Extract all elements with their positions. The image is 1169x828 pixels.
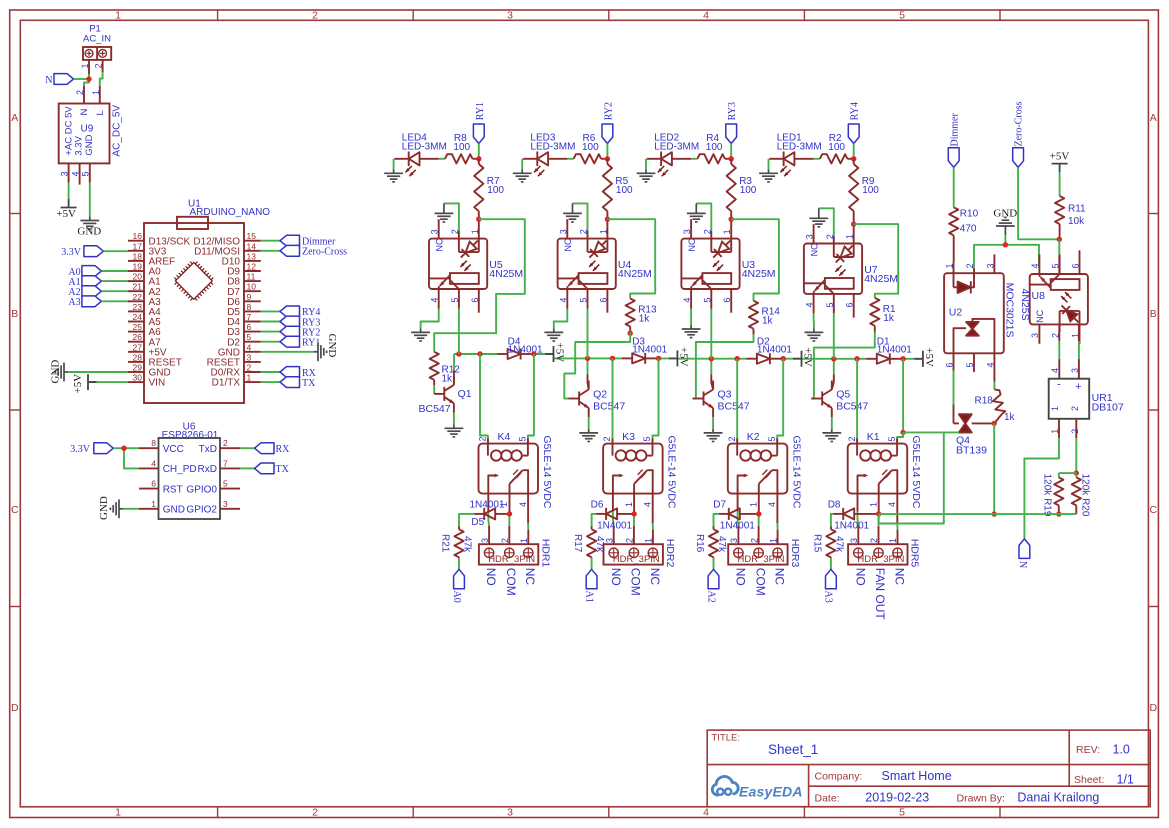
wire Q1 emitter to ground: [453, 403, 455, 412]
resistor R4 100: [697, 154, 725, 163]
svg-text:5: 5: [518, 436, 528, 441]
svg-text:A: A: [11, 112, 18, 124]
wire Q5 base lead: [811, 398, 822, 400]
svg-text:1: 1: [151, 499, 156, 509]
svg-text:Zero-Cross: Zero-Cross: [302, 247, 347, 258]
svg-text:RY1: RY1: [475, 102, 486, 120]
U1 pin 20 (A1) stub: [128, 280, 144, 282]
svg-text:8: 8: [247, 302, 252, 312]
relay K1 G5LE-14 5VDC body: [848, 444, 908, 494]
junction dot below R13: [628, 331, 633, 336]
junction dot at U7 pin1: [851, 221, 856, 226]
svg-text:100: 100: [616, 185, 633, 196]
svg-text:CH_PD: CH_PD: [163, 464, 197, 475]
junction dot A ch3: [709, 356, 714, 361]
wire A0 flag to U1: [101, 270, 128, 272]
svg-text:HDR5: HDR5: [909, 539, 921, 568]
svg-text:3: 3: [430, 229, 440, 234]
svg-text:FAN OUT: FAN OUT: [873, 568, 887, 621]
svg-text:+5V: +5V: [56, 208, 76, 220]
wire 3.3V to U6 VCC: [113, 447, 139, 449]
svg-text:+5V: +5V: [802, 347, 814, 367]
svg-text:A: A: [1150, 112, 1157, 124]
svg-text:3.3V: 3.3V: [70, 444, 91, 455]
wire rail to relay pin5 ch4: [902, 359, 904, 433]
connector P1 AC_IN: [83, 47, 111, 60]
svg-text:1k: 1k: [639, 314, 651, 325]
connector HDR1 HDR_3PIN body: [479, 544, 538, 564]
svg-text:24: 24: [133, 312, 143, 322]
svg-text:4: 4: [247, 342, 252, 352]
U1 pin 18 (AREF) stub: [128, 260, 144, 262]
svg-text:VIN: VIN: [149, 378, 166, 389]
resistor R19 120k: [1058, 473, 1060, 477]
wire R21 to A0 flag: [458, 558, 460, 569]
U1 pin 23 (A4) stub: [128, 310, 144, 312]
net flag RY4: [848, 124, 859, 144]
ground symbol at Q1: [445, 424, 464, 437]
power symbol +5V rail bar: [545, 346, 554, 362]
svg-text:17: 17: [133, 241, 143, 251]
svg-text:25: 25: [133, 322, 143, 332]
junction dot at HDR1 pin2 column: [507, 511, 512, 516]
wire A3 flag to U1: [101, 300, 128, 302]
resistor R21 47k: [458, 527, 460, 530]
resistor R8 100: [445, 154, 473, 163]
wire rail to relay pin2 ch1: [480, 354, 488, 444]
wire +5V to R11: [1059, 172, 1061, 196]
U1 pin 25 (A6) stub: [128, 331, 144, 333]
optocoupler U7 4N25M body: [804, 244, 862, 294]
junction dot at HDR5 pin2 column: [876, 511, 881, 516]
svg-text:4: 4: [642, 502, 652, 507]
junction dot B ch1: [477, 351, 482, 356]
svg-text:R10: R10: [960, 209, 979, 220]
wire relay K1 pin4 to HDR5 pin1: [896, 494, 898, 523]
svg-text:3: 3: [507, 807, 513, 819]
svg-text:100: 100: [706, 142, 723, 153]
svg-text:HDR_3PIN: HDR_3PIN: [857, 554, 904, 565]
svg-text:Drawn By:: Drawn By:: [957, 792, 1005, 804]
diode D8 1N4001: [843, 508, 854, 519]
junction dot C ch1: [531, 351, 536, 356]
ground symbol at Q2: [579, 429, 598, 442]
svg-text:6: 6: [945, 362, 955, 367]
svg-text:4N25S: 4N25S: [1019, 289, 1031, 321]
svg-text:NC: NC: [1035, 309, 1045, 322]
U9 pin 3 lead: [68, 163, 70, 182]
svg-text:23: 23: [133, 302, 143, 312]
relay K2 G5LE-14 5VDC body: [728, 444, 788, 494]
connector HDR2 HDR_3PIN body: [604, 544, 663, 564]
svg-text:GPIO2: GPIO2: [186, 505, 217, 516]
wire UR1 pin2 down to R19/R20 top: [1075, 438, 1077, 473]
diode D2 1N4001 flyback: [757, 354, 770, 364]
optocoupler U3 4N25M body: [681, 239, 739, 289]
svg-text:R18: R18: [975, 396, 994, 407]
U2 bottom stubs: [973, 353, 975, 372]
diode D3 1N4001 flyback: [632, 353, 645, 363]
svg-text:BC547: BC547: [419, 403, 451, 415]
wire relay K1 pin1 to HDR5 pin2: [878, 494, 880, 512]
svg-text:2: 2: [727, 436, 737, 441]
wire Zero-Cross to R11 node: [1018, 167, 1059, 239]
wire relay K4 pin4 to HDR1 pin1: [527, 494, 529, 523]
junction dot at HDR2 pin2 column: [631, 511, 636, 516]
U1 pin 21 (A2) stub: [128, 290, 144, 292]
svg-text:LED-3MM: LED-3MM: [530, 142, 575, 153]
svg-text:6: 6: [151, 479, 156, 489]
svg-text:3: 3: [1070, 368, 1080, 373]
wire RY2 flag down: [606, 144, 608, 159]
wire Q2 emitter to ground: [588, 408, 590, 417]
wire relay K4 pin3 to HDR1: [487, 494, 489, 512]
svg-text:5: 5: [247, 332, 252, 342]
wire U1 pin30 to +5V: [88, 381, 128, 383]
wire RY1 flag down: [478, 144, 480, 159]
svg-text:30: 30: [133, 373, 143, 383]
junction dot 3.3V branch: [121, 446, 126, 451]
svg-text:A2: A2: [705, 591, 716, 603]
junction dot at U5 pin1: [476, 217, 481, 222]
resistor R3 100: [730, 159, 732, 164]
wire U5 pin1 loop to R12: [434, 219, 525, 352]
svg-text:2: 2: [965, 263, 975, 268]
svg-text:TX: TX: [302, 378, 316, 389]
svg-text:1: 1: [1050, 406, 1060, 411]
ground symbol at LED1: [769, 158, 783, 160]
resistor R5 100: [606, 159, 608, 164]
net flag 3.3V at U1 pin17: [84, 246, 104, 257]
wire N flag to junction: [74, 78, 90, 80]
svg-text:A1: A1: [583, 591, 594, 603]
svg-text:1N4001: 1N4001: [757, 345, 792, 356]
U6 pin 2 (TxD) stub: [220, 447, 240, 449]
svg-text:RY2: RY2: [603, 102, 614, 120]
wire relay K3 pin1 to HDR2 pin2: [633, 494, 635, 512]
svg-text:7: 7: [223, 458, 228, 468]
ground symbol at U1 pin29: [55, 363, 68, 382]
svg-text:5: 5: [450, 298, 460, 303]
svg-text:1: 1: [470, 229, 480, 234]
svg-text:11: 11: [247, 272, 256, 282]
UR1 pin2 lead: [1075, 419, 1077, 438]
transistor Q1 BC547: [443, 387, 445, 401]
U6 pin 7 (RxD) stub: [220, 467, 240, 469]
svg-text:1N4001: 1N4001: [470, 499, 505, 510]
wire U8 pin1 to UR1 pin3: [1078, 325, 1080, 341]
svg-text:N: N: [45, 75, 52, 86]
svg-text:LED-3MM: LED-3MM: [777, 142, 822, 153]
svg-text:47k: 47k: [462, 536, 473, 553]
svg-text:EasyEDA: EasyEDA: [739, 784, 803, 800]
diode D4 1N4001 flyback: [508, 349, 521, 359]
svg-text:BC547: BC547: [593, 401, 625, 413]
wire Q5 emitter to ground: [831, 408, 833, 417]
wire rail to +5V right ch2: [659, 357, 678, 359]
svg-text:47k: 47k: [833, 536, 844, 553]
svg-text:3: 3: [60, 171, 70, 176]
wire LED2 to R4: [691, 158, 697, 160]
svg-text:1: 1: [845, 234, 855, 239]
svg-text:BC547: BC547: [836, 401, 868, 413]
resistor R20 120k: [1075, 473, 1077, 477]
svg-text:4: 4: [703, 807, 709, 819]
svg-text:2: 2: [1070, 406, 1080, 411]
svg-text:BT139: BT139: [956, 445, 987, 457]
svg-text:100: 100: [453, 142, 470, 153]
svg-text:GND: GND: [98, 496, 110, 520]
svg-text:6: 6: [470, 298, 480, 303]
svg-text:3: 3: [247, 352, 252, 362]
U1 pin 6 (D3) stub: [244, 331, 261, 333]
svg-text:1/1: 1/1: [1117, 772, 1134, 786]
svg-text:14: 14: [247, 241, 257, 251]
svg-text:GND: GND: [326, 334, 338, 358]
svg-text:NC: NC: [810, 243, 820, 256]
wire Dimmer flag to R10: [953, 167, 955, 207]
wire U8 pin2 to UR1 pin4: [1058, 325, 1060, 341]
svg-text:1N4001: 1N4001: [632, 345, 667, 356]
junction dot C ch3: [781, 356, 786, 361]
power module U9 AC_DC_5V: [59, 104, 110, 164]
junction dot C ch2: [656, 356, 661, 361]
net flag N (AC input): [54, 74, 74, 85]
wire U7 pin1 loop to R1: [854, 224, 899, 298]
svg-text:100: 100: [828, 142, 845, 153]
junction dot R19 bottom: [1056, 511, 1061, 516]
junction dot B ch3: [735, 356, 740, 361]
wire U1 pin4 to GND: [261, 351, 314, 353]
svg-text:2: 2: [478, 436, 488, 441]
svg-text:D: D: [1150, 702, 1158, 714]
svg-text:470: 470: [960, 224, 977, 235]
svg-text:LED-3MM: LED-3MM: [402, 142, 447, 153]
net flag A1 at U1: [82, 276, 102, 287]
svg-text:4: 4: [1050, 368, 1060, 373]
K1 coil: [856, 438, 858, 455]
svg-text:1N4001: 1N4001: [834, 521, 869, 532]
wire opto pin4 to ground ch4: [813, 313, 815, 328]
svg-text:4N25M: 4N25M: [864, 273, 898, 285]
svg-text:2019-02-23: 2019-02-23: [865, 791, 929, 805]
svg-text:5: 5: [223, 479, 228, 489]
wire Q4 MT1 to HDR5 fan out: [879, 432, 944, 523]
wire rail to relay pin2 ch4: [856, 359, 858, 444]
net flag A2 at U1: [82, 286, 102, 297]
U2 internal triac: [954, 328, 967, 353]
svg-text:8: 8: [151, 438, 156, 448]
net flag Dimmer at U1 pin15: [261, 240, 280, 242]
net flag Zero-Cross at U1 pin14: [261, 250, 280, 252]
wire rail to +5V right ch1: [534, 353, 554, 355]
wire opto pin5 down to rail ch1: [458, 309, 460, 355]
U6 pin 3 (GPIO2) stub: [220, 508, 240, 510]
wire Q5 collector: [831, 389, 833, 390]
svg-text:3: 3: [1030, 333, 1040, 338]
svg-text:1k: 1k: [1004, 412, 1016, 423]
svg-text:4: 4: [805, 302, 815, 307]
wire relay K3 pin3 to HDR2: [612, 494, 614, 512]
svg-text:22: 22: [133, 292, 143, 302]
U1 pin 27 (+5V) stub: [128, 351, 144, 353]
svg-text:2: 2: [312, 807, 318, 819]
wire R1 to Q5 base: [811, 332, 875, 399]
junction dot R11/Zero-Cross: [1057, 237, 1062, 242]
optocoupler U4 4N25M body: [558, 239, 616, 289]
svg-text:5: 5: [825, 302, 835, 307]
svg-text:1k: 1k: [762, 316, 774, 327]
U2 pin 3 stub: [993, 254, 995, 273]
border row ticks right: [1148, 213, 1158, 215]
svg-text:A3: A3: [68, 297, 80, 308]
svg-text:47k: 47k: [594, 536, 605, 553]
svg-text:Company:: Company:: [815, 771, 863, 783]
svg-text:TX: TX: [276, 464, 290, 475]
diode D1 1N4001 flyback: [877, 354, 890, 364]
svg-text:LED-3MM: LED-3MM: [654, 142, 699, 153]
junction dot RY2 node: [605, 156, 610, 161]
wire D7 to R16: [719, 513, 729, 515]
resistor R6 100: [574, 154, 602, 163]
svg-text:7: 7: [247, 312, 252, 322]
svg-text:4: 4: [71, 171, 81, 176]
U1 pin 24 (A5) stub: [128, 321, 144, 323]
resistor R14 1k: [749, 301, 758, 329]
svg-text:4: 4: [430, 298, 440, 303]
U1 pin 1 (D1/TX) stub: [244, 381, 261, 383]
svg-text:G5LE-14 5VDC: G5LE-14 5VDC: [910, 436, 922, 509]
svg-text:5: 5: [965, 362, 975, 367]
svg-text:26: 26: [133, 332, 143, 342]
svg-text:20: 20: [133, 272, 143, 282]
ground symbol at U6: [110, 499, 123, 518]
transistor Q3 BC547: [703, 392, 705, 406]
EasyEDA logo: [712, 776, 802, 799]
svg-text:Q3: Q3: [718, 389, 732, 401]
relay K4 G5LE-14 5VDC body: [479, 444, 539, 494]
resistor R12 1k: [430, 352, 439, 380]
ground symbol at U9: [80, 217, 99, 230]
net flag A2: [708, 569, 719, 589]
wire 3.3V flag to U1 pin17: [103, 250, 128, 252]
svg-text:AC_DC_5V: AC_DC_5V: [112, 105, 123, 157]
ground symbol at U1 pin4: [314, 342, 327, 361]
led LED3 LED-3MM: [536, 152, 538, 167]
svg-text:NC: NC: [892, 568, 906, 586]
wire RY4 flag down: [853, 144, 855, 159]
svg-text:5: 5: [899, 10, 905, 22]
wire node to U8 pin5: [1058, 239, 1060, 256]
svg-text:+5V: +5V: [72, 374, 84, 394]
wire Q1 collector: [453, 384, 455, 385]
svg-text:Date:: Date:: [815, 792, 840, 804]
wire rail to +5V right ch4: [903, 358, 923, 360]
border row ticks left: [10, 213, 21, 215]
U1 pin 5 (D2) stub: [244, 341, 261, 343]
svg-text:-: -: [1057, 379, 1061, 391]
svg-text:REV:: REV:: [1076, 744, 1100, 756]
net flag 3.3V at U6: [94, 443, 114, 454]
led LED4 LED-3MM: [408, 152, 410, 167]
wire D8 to R15: [833, 513, 843, 515]
svg-text:1: 1: [115, 10, 121, 22]
wire relay K4 pin1 to HDR1 pin2: [509, 494, 511, 512]
svg-text:2: 2: [847, 436, 857, 441]
svg-text:NO: NO: [484, 568, 498, 586]
net flag RX at U6: [255, 443, 275, 454]
mcu U1 ARDUINO_NANO body: [144, 223, 244, 403]
resistor R13 1k: [626, 299, 635, 327]
wire U4 pin1 loop to R13: [607, 219, 655, 298]
svg-text:100: 100: [740, 185, 757, 196]
U1 pin 8 (D5) stub: [244, 310, 261, 312]
net flag RY1 at U1 pin5: [261, 341, 280, 343]
U1 pin 17 (3V3) stub: [128, 250, 144, 252]
wire Q2 base lead: [568, 398, 579, 400]
svg-text:Q1: Q1: [458, 388, 472, 400]
wire U1 pin29 to GND: [68, 371, 128, 373]
svg-text:1.0: 1.0: [1113, 742, 1130, 756]
svg-text:2: 2: [75, 90, 85, 95]
svg-text:NO: NO: [853, 568, 867, 586]
svg-text:1: 1: [749, 502, 759, 507]
junction dot at U3 pin1: [729, 217, 734, 222]
bridge rectifier UR1 DB107 body: [1049, 379, 1090, 419]
wire U2 pin2 to U8 pin4 (gnd net): [974, 245, 1039, 268]
junction dot B ch4: [854, 356, 859, 361]
svg-text:TITLE:: TITLE:: [712, 733, 741, 744]
svg-text:21: 21: [133, 282, 143, 292]
svg-text:4: 4: [682, 298, 692, 303]
svg-text:6: 6: [598, 298, 608, 303]
net flag TX at U6: [255, 463, 275, 474]
U1 pin 3 (RESET) stub: [244, 361, 261, 363]
P1 pin 1 lead: [88, 60, 90, 74]
svg-text:Zero-Cross: Zero-Cross: [1014, 101, 1025, 146]
svg-text:COM: COM: [753, 568, 767, 596]
junction dot K1 pin5 branch: [900, 430, 905, 435]
svg-text:U9: U9: [81, 123, 94, 134]
wire rail to relay pin5 ch2: [653, 358, 659, 443]
svg-text:3: 3: [558, 229, 568, 234]
svg-text:Q5: Q5: [836, 389, 850, 401]
wire RY3 flag down: [730, 144, 732, 159]
power symbol +5V at U1 pin30: [88, 374, 97, 390]
U1 pin 28 (RESET) stub: [128, 361, 144, 363]
wire U6 RxD to TX flag: [240, 467, 255, 469]
svg-text:28: 28: [133, 352, 143, 362]
svg-text:6: 6: [722, 298, 732, 303]
resistor R17 47k: [591, 527, 593, 530]
svg-text:U8: U8: [1032, 290, 1046, 302]
U6 pin 1 (GND) stub: [139, 508, 159, 510]
svg-text:3.3V: 3.3V: [61, 247, 82, 258]
relay K3 G5LE-14 5VDC body: [603, 444, 663, 494]
net flag A3: [826, 569, 837, 589]
resistor R2 100: [820, 154, 848, 163]
svg-text:A0: A0: [451, 591, 462, 603]
svg-text:1N4001: 1N4001: [597, 521, 632, 532]
svg-text:3: 3: [805, 234, 815, 239]
svg-text:NC: NC: [435, 238, 445, 251]
wire U2 pin6 to Q4: [953, 371, 955, 405]
transistor Q2 BC547: [578, 392, 580, 406]
U1 pin 11 (D8) stub: [244, 280, 261, 282]
svg-text:GPIO0: GPIO0: [186, 484, 217, 495]
U1 pin 2 (D0/RX) stub: [244, 371, 261, 373]
svg-text:100: 100: [862, 185, 879, 196]
